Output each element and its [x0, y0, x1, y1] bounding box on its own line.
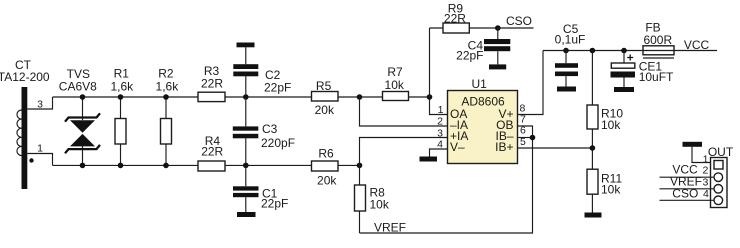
wire CT pin3 to top rail — [27, 97, 52, 109]
resistor R8 — [355, 165, 366, 233]
resistor R7 — [383, 92, 409, 101]
node TVS bottom — [80, 163, 86, 169]
svg-text:22pF: 22pF — [456, 48, 483, 62]
wire VCC rail — [543, 50, 643, 52]
svg-text:R1: R1 — [114, 66, 130, 80]
svg-text:20k: 20k — [317, 174, 337, 188]
svg-text:1: 1 — [438, 104, 444, 116]
resistor R10 labels — [601, 106, 623, 132]
resistor R7 labels — [385, 65, 405, 92]
wire bottom rail — [53, 164, 199, 166]
resistor R11 — [587, 148, 598, 213]
capacitor C4 — [484, 28, 510, 64]
capacitor C2 — [233, 47, 258, 97]
wire pin5 to divider — [518, 147, 593, 149]
op-amp U1 AD8606 — [448, 91, 518, 164]
svg-text:10k: 10k — [601, 118, 621, 132]
ground below C4 — [489, 64, 506, 69]
wire FB to VCC — [674, 50, 717, 52]
resistor R8 labels — [370, 185, 390, 211]
svg-text:22pF: 22pF — [264, 80, 291, 94]
svg-text:R6: R6 — [318, 146, 334, 160]
node R10/R11/IB+ — [590, 145, 596, 151]
capacitor C5 — [555, 51, 578, 87]
svg-text:220pF: 220pF — [261, 136, 295, 150]
transformer CT winding coil — [17, 110, 22, 156]
wire junction to pin2 — [360, 97, 448, 126]
node R6/R8 junction — [357, 163, 363, 169]
node C3/C1 bottom rail — [243, 163, 249, 169]
wire junction to pin3 — [360, 138, 448, 166]
capacitor CE1 labels — [639, 59, 674, 84]
svg-text:TA12-200: TA12-200 — [0, 70, 50, 84]
node R2 top — [163, 94, 169, 100]
connector OUT body — [711, 158, 728, 208]
svg-text:22R: 22R — [201, 76, 223, 90]
wire CT pin1 to bottom rail — [27, 154, 52, 166]
svg-text:R7: R7 — [387, 65, 403, 79]
wire VREF rail — [360, 138, 533, 234]
svg-text:VCC: VCC — [684, 38, 710, 52]
capacitor C3 — [233, 97, 258, 165]
resistor R2 labels — [156, 66, 180, 93]
node TVS top — [80, 94, 86, 100]
resistor R6 — [312, 161, 339, 171]
svg-text:4: 4 — [703, 188, 709, 200]
svg-text:U1: U1 — [472, 77, 488, 91]
capacitor C4 labels — [456, 39, 483, 63]
svg-text:10k: 10k — [385, 78, 405, 92]
transformer CT core bar — [22, 87, 28, 189]
wire pin6 — [518, 137, 533, 139]
resistor R5 — [312, 92, 339, 102]
capacitor C2 labels — [264, 68, 291, 94]
connector OUT pin4 circle — [714, 196, 723, 205]
connector OUT pin3 circle — [714, 185, 723, 194]
capacitor C1 labels — [261, 187, 288, 211]
svg-text:V–: V– — [450, 140, 465, 154]
svg-text:1: 1 — [37, 143, 43, 155]
svg-text:1,6k: 1,6k — [110, 80, 134, 94]
resistor R1 — [115, 97, 126, 165]
connector OUT pin1 square — [714, 161, 723, 170]
svg-text:CA6V8: CA6V8 — [59, 80, 97, 94]
ground above C2 — [237, 43, 255, 48]
capacitor C3 labels — [261, 122, 295, 150]
svg-text:10uFT: 10uFT — [639, 70, 674, 84]
svg-text:IB+: IB+ — [495, 140, 513, 154]
wire pin4 to ground — [430, 149, 448, 157]
TVS D1 symbol — [65, 97, 100, 165]
resistor R1 labels — [110, 66, 134, 93]
resistor R10 — [587, 51, 598, 149]
resistor R4 labels — [201, 134, 223, 158]
resistor R11 labels — [601, 171, 622, 196]
svg-text:10k: 10k — [370, 197, 390, 211]
node R9/C4/CSO — [495, 25, 501, 31]
svg-text:20k: 20k — [315, 103, 335, 117]
wire R9 column to pin1 — [430, 28, 448, 115]
node R1 bottom — [118, 163, 124, 169]
resistor R5 labels — [315, 79, 335, 117]
capacitor C1 — [233, 165, 259, 212]
node R7/R9/pin1 junction — [427, 94, 433, 100]
ground below R11 — [585, 213, 602, 218]
wire pin8 to VCC rail — [518, 51, 544, 115]
capacitor C5 labels — [555, 22, 586, 47]
wire VREF stub to OUT pin3 — [660, 188, 715, 190]
resistor R9 — [430, 23, 534, 33]
wire CSO stub to OUT pin4 — [660, 199, 715, 201]
resistor R3 — [198, 92, 225, 101]
node R1 top — [118, 94, 124, 100]
svg-text:22pF: 22pF — [261, 197, 288, 211]
node OB/IB- junction — [530, 135, 536, 141]
connector OUT pin2 circle — [714, 173, 723, 182]
resistor R3 labels — [201, 64, 223, 90]
wire top rail — [53, 96, 199, 98]
ferrite bead FB labels — [643, 21, 672, 47]
svg-text:CSO: CSO — [506, 14, 532, 28]
svg-text:R2: R2 — [158, 66, 174, 80]
svg-text:OUT: OUT — [708, 145, 734, 159]
node R5/R7 junction — [357, 94, 363, 100]
node R10 top — [590, 48, 596, 54]
resistor R2 — [161, 97, 172, 165]
node CE1 top — [621, 48, 627, 54]
svg-text:2: 2 — [437, 115, 443, 127]
ground below CE1 — [614, 87, 634, 92]
ground above OUT pin1 — [683, 142, 703, 147]
capacitor CE1 plus sign — [627, 55, 633, 61]
svg-text:0,1uF: 0,1uF — [555, 33, 586, 47]
ground at pin4 — [420, 157, 438, 162]
wire VCC stub to OUT pin2 — [660, 176, 715, 178]
svg-text:600R: 600R — [643, 33, 672, 47]
transformer CT TA12-200 labels — [0, 58, 50, 84]
wire ground to OUT pin1 — [692, 147, 711, 163]
svg-text:CSO: CSO — [672, 186, 698, 200]
svg-text:2: 2 — [702, 165, 708, 177]
svg-text:C3: C3 — [262, 122, 278, 136]
svg-text:10k: 10k — [601, 182, 621, 196]
svg-text:22R: 22R — [201, 144, 223, 158]
wire pin7 to feedback — [518, 126, 533, 138]
node C5 top — [563, 48, 569, 54]
ground below C5 — [557, 87, 576, 92]
ground below C1 — [237, 212, 256, 217]
svg-text:VREF: VREF — [374, 221, 406, 235]
capacitor CE1 — [611, 51, 636, 88]
resistor R6 labels — [317, 146, 337, 187]
resistor R4 — [198, 161, 225, 171]
svg-text:3: 3 — [702, 177, 708, 189]
resistor R9 labels — [444, 2, 466, 26]
polarity dot — [29, 158, 33, 162]
ferrite bead FB — [643, 46, 674, 58]
TVS CA6V8 labels — [59, 67, 97, 94]
node R2 bottom — [163, 163, 169, 169]
svg-text:1,6k: 1,6k — [156, 80, 180, 94]
node C2/C3 top rail — [243, 94, 249, 100]
